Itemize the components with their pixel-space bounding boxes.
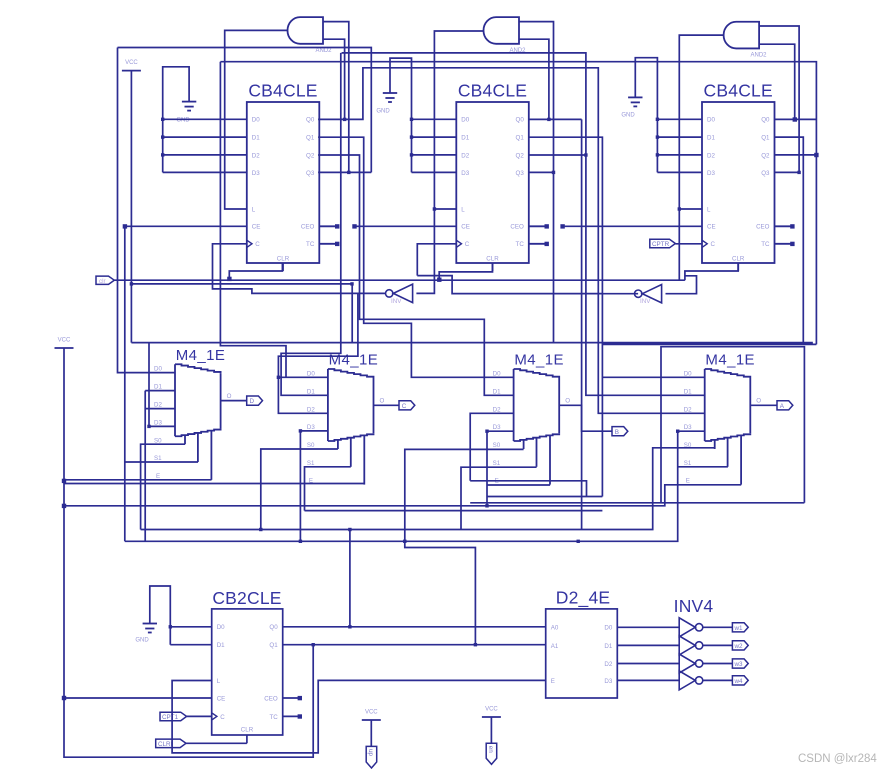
wire: CPT1 flag to CB2CLE C — [187, 715, 212, 717]
svg-text:CE: CE — [217, 695, 226, 702]
ground G1 (left of U1) — [176, 102, 196, 124]
svg-text:GND: GND — [176, 118, 190, 124]
wire: VCC P4 stem to flag — [490, 717, 492, 743]
wire: mux U6 output down to flag B — [559, 405, 612, 431]
wire: mux U5 S1 from bus y510.6 — [305, 467, 351, 511]
wire: gate A3 output to U3 L and down to clr net — [678, 35, 724, 280]
power VCC P3 (bottom middle) — [362, 710, 381, 721]
wire: U3 Q0 row — [775, 118, 817, 120]
svg-text:D0: D0 — [604, 625, 612, 632]
inverter U9 INV — [635, 285, 662, 306]
wire: left vertical to mux U4 D0 — [118, 48, 176, 373]
svg-text:CLR: CLR — [241, 727, 254, 734]
wire: U3 Q3 stub — [775, 171, 800, 173]
wire: U1 C from inverter U8 output — [213, 244, 386, 294]
wire: mux U7 frame — [661, 347, 804, 503]
svg-text:D3: D3 — [604, 678, 612, 685]
wire: mux U4 S1 from left vertical — [125, 461, 198, 463]
wire: U2 CE from VCC branch column — [352, 224, 456, 228]
svg-text:INV4: INV4 — [674, 596, 714, 616]
wire: ground G1 bracket to U1 D inputs — [161, 67, 247, 173]
wire: long line y61.7 to U3 Q2 — [220, 62, 818, 345]
svg-text:GND: GND — [135, 638, 149, 644]
svg-text:L: L — [217, 678, 221, 685]
svg-text:AND2: AND2 — [315, 48, 332, 54]
svg-text:A1: A1 — [551, 643, 559, 650]
svg-text:GND: GND — [621, 113, 635, 119]
wire: right column down from U2 Q0 — [581, 119, 583, 529]
power VCC P4 (bottom middle right) — [482, 707, 501, 718]
wire: VCC P3 stem to flag — [370, 720, 372, 746]
wire: gate A2 output to U2 L, U2 C, inverter U8 input — [416, 31, 602, 294]
wire: U3 CE long — [560, 224, 702, 228]
wire: VCC P2 stem down to CB2CLE CE — [62, 348, 315, 757]
ground G4 (left of U10) — [135, 624, 157, 644]
wire: bus y529.5 to mux U7 S0 — [141, 448, 715, 531]
output flag A (mux U7 output) — [777, 401, 793, 410]
svg-text:Q1: Q1 — [269, 642, 278, 649]
svg-text:w1: w1 — [734, 625, 744, 632]
wire: gate A1 inputs from U1 Q0,Q3 — [323, 22, 351, 174]
wire: U2 Q2 to column x585.9 — [529, 154, 586, 156]
wire: CB2CLE L / D2_4E E net — [172, 680, 546, 753]
wire: y52.9 left leg jog to mux U5 D1 — [281, 53, 341, 395]
wire: VCC P1 stem and branch — [130, 71, 817, 345]
gate A3 AND2 — [724, 22, 768, 59]
output flag D (mux U4 output) — [247, 396, 263, 405]
wire: mux U7 D0 from mid column — [602, 376, 704, 378]
wire: U1 Q2 to mux U6 D1 — [318, 155, 513, 395]
wire: mux U4 D1 D2 tie down to bus y541.3 — [145, 391, 175, 542]
wire: line y61.7 left leg down to mux U5 D0 column — [220, 62, 286, 378]
wire: ground G3 bracket to U3 D inputs — [635, 58, 702, 173]
wire: mux U7 output to flag A — [750, 404, 777, 406]
input flag CLRI — [156, 739, 186, 748]
svg-text:D0: D0 — [217, 624, 225, 631]
svg-text:AND2: AND2 — [750, 53, 767, 59]
counter U1 CB4CLE — [247, 81, 340, 272]
inverter bank U12 INV4 — [674, 596, 714, 690]
wire: CB2CLE Q0 to D2_4E A0 — [283, 626, 546, 628]
wire: D2_4E D0 to INV4 — [617, 626, 679, 628]
svg-text:D: D — [250, 398, 255, 405]
ground G2 (left of U2) — [376, 93, 397, 115]
wire: INV4 outputs to flags — [703, 627, 733, 680]
svg-text:D1: D1 — [217, 642, 225, 649]
svg-text:E: E — [551, 678, 555, 685]
wire: top line y47.5 to U1 Q3 — [118, 48, 372, 173]
counter U10 CB2CLE — [212, 588, 302, 743]
wire: gate A2 bottom input from U2 Q0 — [519, 39, 551, 121]
svg-text:CPTR: CPTR — [652, 241, 670, 248]
wire: inverter U9 output to U2 clock column — [602, 293, 638, 295]
wire: gate A3 top input from U3 Q3 — [760, 26, 801, 174]
net flag up (below VCC P3, pointing down) — [366, 746, 377, 768]
wire: U1 CE from left vertical — [123, 224, 247, 541]
wire: gate A1 output to U1 L — [225, 30, 288, 209]
wire: mux U5 S0 from bus y529.5 — [261, 449, 338, 530]
mux U4 M4_1E — [154, 347, 232, 480]
svg-text:en: en — [487, 746, 494, 754]
wire: U2 Q1 down mid column to busE y496.5 — [529, 137, 603, 496]
wire: ground G4 bracket to CB2CLE D0 D1 — [150, 586, 212, 645]
wire: busA y502.8 — [470, 502, 804, 504]
svg-text:up: up — [367, 749, 374, 757]
wire: mux U6 S0 from bus y541.3 — [405, 449, 524, 541]
svg-text:CPT1: CPT1 — [162, 714, 179, 721]
counter U2 CB4CLE — [456, 81, 549, 272]
svg-text:w2: w2 — [734, 643, 744, 650]
wire: D2_4E D1 to INV4 — [617, 644, 679, 646]
wire: top line y52.9 down to mux U7 D1 — [342, 53, 705, 395]
svg-text:CB2CLE: CB2CLE — [212, 588, 281, 608]
gate A2 AND2 — [484, 17, 527, 54]
wire: mux U4 S0 to bus y529.5 — [141, 444, 185, 529]
gate A1 AND2 — [288, 17, 333, 54]
wire: U2 Q3 to gate A2 input column junction — [529, 171, 555, 174]
wire: U2 Q0 row — [529, 118, 582, 120]
inverter U8 INV — [386, 284, 413, 305]
svg-text:clr: clr — [99, 278, 106, 285]
svg-text:GND: GND — [376, 109, 390, 115]
wire: A0 net from bus y529.5 to D2_4E A0 — [348, 530, 351, 629]
wire: CB2CLE CE — [64, 697, 212, 699]
wire: U1 CLR down to clr net — [227, 263, 282, 281]
wire: bus y510.6 — [305, 510, 603, 512]
power VCC P2 (mid left) — [55, 338, 74, 349]
ground G3 (left of U3) — [621, 97, 642, 118]
svg-text:A0: A0 — [551, 625, 559, 632]
wire: mux U4 E from VCC column — [64, 479, 212, 481]
power VCC P1 (top left) — [122, 60, 141, 71]
output flag w2 — [732, 641, 748, 650]
output flag B (mux U6 output) — [612, 427, 628, 436]
svg-text:Q0: Q0 — [269, 624, 278, 631]
svg-text:INV: INV — [391, 298, 402, 305]
input flag CPT1 — [160, 712, 187, 721]
svg-text:CSDN @lxr284: CSDN @lxr284 — [798, 753, 877, 765]
output flag w1 — [732, 623, 748, 632]
input flag CPTR — [650, 239, 676, 248]
svg-text:CEO: CEO — [264, 695, 278, 702]
svg-text:C: C — [220, 714, 225, 721]
wire: mux U7 S1 from busD column — [678, 466, 728, 468]
svg-text:w3: w3 — [734, 661, 744, 668]
wire: mux U6 E — [487, 484, 550, 486]
svg-text:CLRI: CLRI — [158, 741, 173, 748]
wire: ground G2 bracket to U2 D inputs — [390, 58, 456, 172]
wire: U2 CLR down to clr net — [437, 263, 492, 282]
wire: A1 net from y547.5 to D2_4E A1 — [405, 541, 477, 646]
output flag C (mux U5 output) — [399, 401, 415, 410]
wire: U1 Q1 to mux U6 D0 — [318, 137, 513, 377]
output flag w3 — [732, 659, 748, 668]
wire: mux U6 lane x586.5 from y480.8 to busE — [470, 481, 586, 497]
wire: CLRI flag to CB2CLE CLR — [186, 742, 247, 744]
wire: mux U6 D3 junction leg down to bus y505.8 — [485, 430, 513, 508]
mux U5 M4_1E — [307, 352, 385, 485]
wire: CPTR flag to U3 C — [675, 243, 702, 245]
wire: CB2CLE Q1 to D2_4E A1 — [283, 644, 546, 646]
wire: long pair upper y342.9 — [131, 343, 812, 429]
input flag clr — [96, 276, 114, 285]
wire: D2_4E D3 to INV4 — [617, 679, 679, 681]
wire: clr net — [114, 279, 685, 281]
wire: U3 CLR jog to clr net and inverter U9 input — [666, 263, 739, 294]
wire: U3 Q1 down right edge — [775, 137, 804, 343]
wire: gate A2 top input column — [519, 22, 554, 343]
wire: busE y496.5 — [487, 496, 602, 498]
wire: mux U6 S1 — [461, 467, 537, 529]
wire: bus y505.8 to mux U7 E — [64, 485, 741, 506]
decoder U11 D2_4E — [546, 588, 618, 699]
wire: mux U4 output to flag D — [221, 400, 247, 402]
wire: mux U5 E from VCC column — [64, 483, 364, 485]
wire: mux U5 output to flag C — [374, 404, 400, 406]
svg-text:B: B — [615, 429, 619, 436]
mux U6 M4_1E — [493, 352, 571, 485]
svg-text:D1: D1 — [604, 643, 612, 650]
wire: bus y541.3 — [125, 430, 705, 544]
svg-text:C: C — [402, 403, 407, 410]
svg-text:TC: TC — [269, 714, 278, 721]
svg-text:D2_4E: D2_4E — [556, 588, 611, 609]
wire: mux U5 D3 from bus y541.3 — [299, 429, 328, 541]
net flag en (below VCC P4, pointing down) — [486, 743, 497, 764]
svg-text:w4: w4 — [734, 678, 744, 685]
svg-text:D2: D2 — [604, 661, 612, 668]
mux U7 M4_1E — [684, 352, 762, 485]
svg-text:INV: INV — [640, 298, 651, 305]
counter U3 CB4CLE — [702, 81, 795, 272]
wire: mux U6 D2 from y480.8 line — [470, 413, 513, 481]
wire: U1 Q0 up to line y67.8 over to mux U7 D2 — [318, 68, 705, 414]
wire: D2_4E D2 to INV4 — [617, 663, 679, 665]
output flag w4 — [732, 676, 748, 685]
wire: gate A3 bottom input down to U3 Q0 — [760, 44, 798, 122]
wire: feeder x357.9 jog to mux U5 D0 and D2 — [277, 293, 358, 413]
